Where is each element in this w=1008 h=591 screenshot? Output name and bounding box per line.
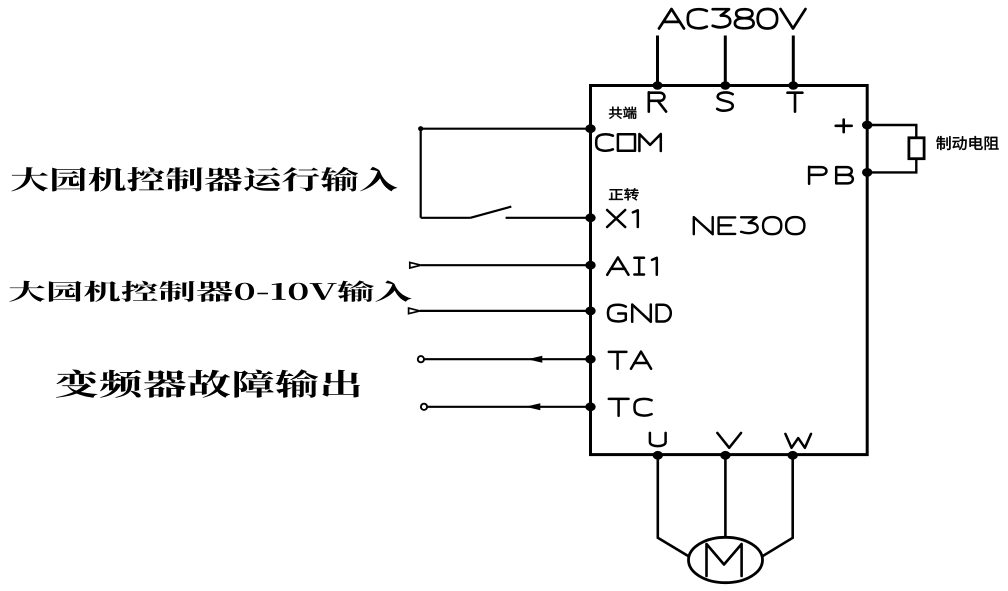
junction GND (585, 307, 595, 316)
node COM wire end (418, 126, 423, 131)
wire COM (421, 128, 591, 130)
terminal label COM (596, 134, 661, 151)
node TC open circle (421, 404, 427, 410)
terminal label AI1 (607, 258, 657, 275)
wire GND (420, 310, 591, 312)
wire U to motor (658, 456, 690, 557)
motor letter M (707, 544, 742, 576)
junction W (788, 451, 798, 460)
label 变频器故障输出 (56, 369, 360, 397)
wire T phase (792, 36, 795, 87)
junction R (653, 81, 663, 90)
wire switch to X1 (506, 217, 591, 219)
switch S1 blade (470, 207, 511, 218)
terminal label TC (609, 399, 652, 416)
junction PB (862, 168, 872, 177)
arrow TA output (528, 356, 543, 363)
terminal label V (717, 433, 741, 448)
label AC380V (659, 9, 806, 29)
junction V (720, 451, 730, 460)
junction AI1 (585, 261, 595, 270)
wire run-input vertical (420, 129, 422, 218)
wire R phase (656, 36, 659, 87)
terminal label X1 (607, 210, 638, 227)
junction S (720, 81, 730, 90)
motor M body (689, 537, 763, 582)
resistor 制动电阻 body (909, 138, 924, 159)
label 大园机控制器运行输入 (11, 167, 397, 192)
terminal label S (717, 92, 733, 110)
terminal label plus (836, 120, 852, 133)
node TA open circle (418, 356, 424, 362)
wire S phase (724, 36, 727, 87)
terminal label GND (608, 305, 671, 322)
junction plus (862, 121, 872, 130)
wire to switch (421, 217, 471, 219)
wire W to motor (761, 456, 793, 557)
terminal label W (785, 434, 811, 448)
note 正转 (609, 188, 639, 200)
junction COM (585, 124, 595, 133)
terminal label TA (609, 352, 651, 369)
junction TA (585, 355, 595, 364)
wire TA (424, 358, 590, 360)
arrow AI1 source (410, 262, 421, 268)
wire AI1 (421, 264, 591, 266)
terminal label T (788, 93, 803, 112)
junction T (788, 81, 798, 90)
junction U (653, 451, 663, 460)
wire V to motor (724, 456, 727, 539)
note 共端 (609, 107, 636, 119)
wire resistor to PB (867, 158, 916, 172)
terminal label R (649, 92, 666, 111)
terminal label U (650, 433, 666, 446)
wire TC (427, 406, 590, 408)
terminal label PB (809, 167, 853, 184)
wire plus to resistor (867, 125, 916, 139)
arrow TC output (526, 403, 541, 410)
junction X1 (585, 213, 595, 222)
junction TC (585, 402, 595, 411)
arrow GND source (409, 308, 420, 314)
label NE300 (694, 217, 805, 234)
label 制动电阻 (936, 136, 998, 150)
label 大园机控制器0-10V输入 (9, 281, 411, 302)
inverter NE300 box (591, 86, 868, 455)
